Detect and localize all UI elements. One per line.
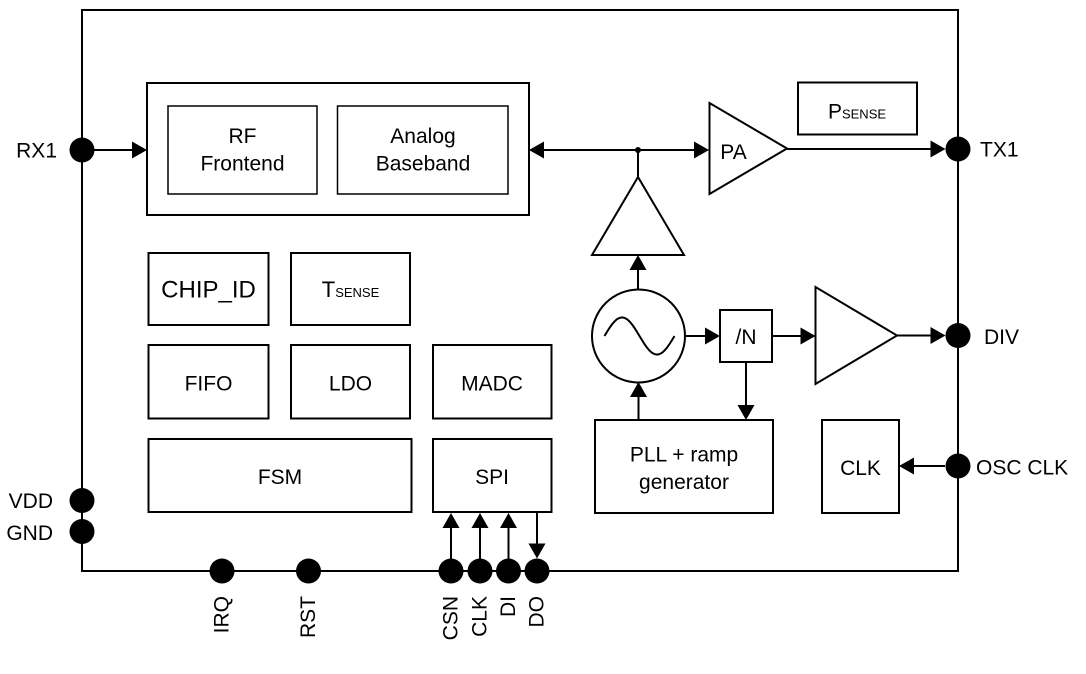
- amplifier triangle (up): [592, 177, 684, 255]
- wire CSN up into SPI with arrowhead: [443, 513, 460, 559]
- svg-text:PA: PA: [720, 141, 746, 164]
- svg-text:FSM: FSM: [258, 466, 302, 489]
- svg-text:CSN: CSN: [440, 596, 463, 640]
- FIFO box: [149, 345, 269, 419]
- svg-text:CHIP_ID: CHIP_ID: [161, 277, 256, 304]
- wire /N to DIV buffer with arrowhead: [772, 328, 816, 345]
- junction node on TX path: [635, 147, 641, 153]
- CLK box: [822, 420, 899, 513]
- wire oscillator to amplifier with arrowhead: [630, 255, 647, 289]
- Analog Baseband block: [338, 106, 509, 194]
- svg-text:RX1: RX1: [16, 140, 57, 163]
- wire oscillator to /N with arrowhead: [685, 328, 720, 345]
- svg-text:Baseband: Baseband: [376, 153, 471, 176]
- TX1 port dot: [946, 137, 971, 162]
- wire DI up into SPI with arrowhead: [500, 513, 517, 559]
- wire PA to TX1 with arrowhead: [787, 141, 946, 158]
- divider /N box: [720, 310, 772, 362]
- CSN port dot: [439, 559, 464, 584]
- svg-text:MADC: MADC: [461, 373, 523, 396]
- svg-text:SPI: SPI: [475, 466, 509, 489]
- IRQ port dot: [210, 559, 235, 584]
- wire DO down from SPI with arrowhead: [529, 513, 546, 559]
- RF/analog container box: [147, 83, 529, 215]
- SPI box: [433, 439, 552, 512]
- svg-text:VDD: VDD: [9, 490, 53, 513]
- svg-text:Frontend: Frontend: [200, 153, 284, 176]
- wire OSC CLK to CLK box with arrowhead: [899, 458, 945, 475]
- svg-text:IRQ: IRQ: [211, 596, 234, 633]
- CHIP_ID box: [149, 253, 269, 325]
- MADC box: [433, 345, 552, 419]
- PA amplifier triangle: [710, 103, 788, 194]
- wire buffer to DIV dot with arrowhead: [897, 327, 946, 344]
- wire CLK up into SPI with arrowhead: [472, 513, 489, 559]
- svg-text:DO: DO: [526, 596, 549, 628]
- PSENSE box: [798, 83, 917, 135]
- DO port dot: [525, 559, 550, 584]
- svg-text:GND: GND: [6, 522, 53, 545]
- svg-text:Analog: Analog: [390, 125, 455, 148]
- svg-text:CLK: CLK: [840, 457, 881, 480]
- svg-text:CLK: CLK: [469, 596, 492, 637]
- FSM box: [149, 439, 412, 512]
- svg-text:RF: RF: [229, 125, 257, 148]
- oscillator sine wave: [605, 317, 675, 354]
- bidirectional wire container to PA: [529, 142, 709, 159]
- DI port dot: [496, 559, 521, 584]
- svg-text:DIV: DIV: [984, 326, 1019, 349]
- svg-text:/N: /N: [736, 326, 757, 349]
- GND port dot: [70, 519, 95, 544]
- VDD port dot: [70, 488, 95, 513]
- OSC CLK port dot: [946, 454, 971, 479]
- DIV buffer triangle: [816, 287, 898, 384]
- wire PLL up to oscillator with arrowhead: [630, 382, 647, 420]
- RST port dot: [296, 559, 321, 584]
- svg-text:generator: generator: [639, 471, 729, 494]
- oscillator circle: [592, 290, 685, 383]
- svg-text:DI: DI: [497, 596, 520, 617]
- svg-text:TX1: TX1: [980, 139, 1019, 162]
- RF Frontend block: [168, 106, 317, 194]
- wire junction down to amplifier: [637, 150, 639, 178]
- RX1 port dot: [70, 138, 95, 163]
- svg-text:OSC CLK: OSC CLK: [976, 457, 1068, 480]
- svg-text:PLL + ramp: PLL + ramp: [630, 444, 738, 467]
- LDO box: [291, 345, 410, 419]
- chip outer border: [82, 10, 958, 571]
- svg-text:FIFO: FIFO: [185, 373, 233, 396]
- PLL + ramp generator box: [595, 420, 773, 513]
- svg-text:LDO: LDO: [329, 373, 372, 396]
- CLK port dot: [468, 559, 493, 584]
- wire /N down to PLL with arrowhead: [738, 362, 755, 420]
- svg-text:RST: RST: [297, 596, 320, 638]
- TSENSE box: [291, 253, 410, 325]
- DIV port dot: [946, 323, 971, 348]
- wire RX1 to container with arrowhead: [94, 142, 147, 159]
